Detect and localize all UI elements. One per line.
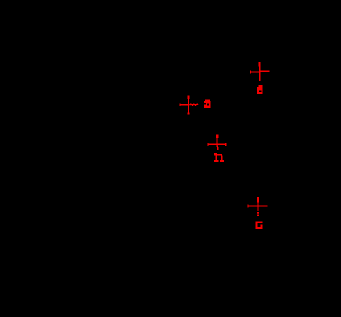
label L2 (small red glyph right of M2)	[204, 100, 211, 109]
marker M3 (red cross probe, center)	[208, 134, 227, 149]
label L1 (small red glyph below M1)	[257, 85, 263, 94]
marker M2 (red cross probe with wavy arm, middle left)	[179, 95, 198, 114]
marker M4 (red cross probe, bottom right)	[248, 197, 268, 216]
label L3 (small red glyph below M3)	[214, 153, 224, 162]
label L4 (small red glyph below M4)	[256, 221, 263, 229]
marker M1 (red cross probe, top right)	[250, 62, 270, 81]
